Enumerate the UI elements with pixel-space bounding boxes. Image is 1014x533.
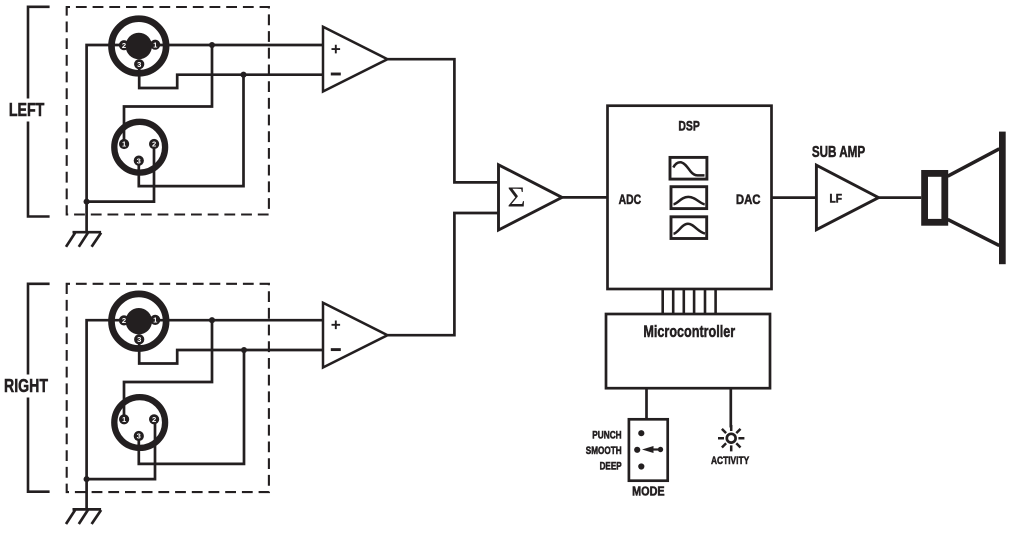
svg-text:ADC: ADC <box>619 192 642 208</box>
svg-text:3: 3 <box>137 432 141 441</box>
svg-text:2: 2 <box>122 316 126 325</box>
svg-text:PUNCH: PUNCH <box>592 429 621 441</box>
svg-text:DSP: DSP <box>678 119 700 135</box>
svg-text:3: 3 <box>137 156 141 165</box>
svg-text:LF: LF <box>830 192 843 206</box>
svg-text:Microcontroller: Microcontroller <box>643 322 735 341</box>
svg-text:2: 2 <box>122 41 126 50</box>
svg-text:DEEP: DEEP <box>600 460 622 472</box>
svg-text:Σ: Σ <box>507 181 525 214</box>
svg-text:SMOOTH: SMOOTH <box>586 445 622 457</box>
svg-text:DAC: DAC <box>736 192 761 208</box>
svg-text:ACTIVITY: ACTIVITY <box>711 455 749 467</box>
svg-text:SUB AMP: SUB AMP <box>812 144 865 161</box>
svg-text:3: 3 <box>137 335 141 344</box>
svg-text:MODE: MODE <box>632 483 665 498</box>
svg-text:3: 3 <box>137 60 141 69</box>
svg-text:2: 2 <box>152 140 156 149</box>
svg-text:LEFT: LEFT <box>9 100 45 120</box>
svg-text:RIGHT: RIGHT <box>4 376 48 396</box>
svg-text:2: 2 <box>152 415 156 424</box>
